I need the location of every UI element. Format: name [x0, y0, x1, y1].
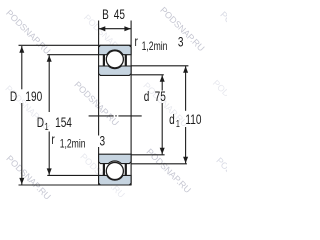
- bearing right face line + B right extension: [130, 21, 132, 186]
- svg-text:r: r: [51, 132, 54, 148]
- svg-text:110: 110: [185, 112, 201, 128]
- svg-text:1: 1: [45, 121, 49, 132]
- svg-text:D: D: [10, 88, 17, 104]
- d top extension line: [131, 74, 164, 76]
- d dimension line upper part: [161, 75, 163, 90]
- d1 dimension bottom arrowhead: [183, 157, 188, 164]
- D1 dimension top arrowhead: [47, 55, 52, 62]
- d1 bottom extension line: [131, 163, 187, 165]
- d1 dimension line lower part: [185, 127, 187, 163]
- center axis line (right dash): [118, 115, 141, 117]
- svg-text:d: d: [144, 89, 150, 105]
- bearing top outer surface line + D top extension line: [19, 44, 132, 46]
- d1 dimension line upper part: [185, 66, 187, 111]
- D1 dimension line upper part: [48, 55, 50, 112]
- bottom section ball: [106, 162, 123, 179]
- svg-text:r: r: [135, 33, 138, 49]
- svg-text:75: 75: [155, 89, 166, 105]
- D dimension line upper part: [21, 46, 23, 89]
- svg-text:d: d: [169, 112, 175, 128]
- bottom section inner ring (cross-section, lower half): [99, 154, 132, 163]
- svg-text:190: 190: [25, 88, 42, 104]
- B dimension right arrowhead: [124, 26, 130, 31]
- bottom section left gap shoulder bar: [103, 164, 105, 176]
- top section inner ring (cross-section, upper half): [99, 66, 132, 75]
- svg-text:D: D: [37, 115, 44, 131]
- D1 dimension line lower part: [48, 132, 50, 175]
- d dimension bottom arrowhead: [160, 148, 165, 155]
- svg-text:154: 154: [55, 115, 72, 131]
- center axis line (center dot): [115, 115, 117, 117]
- bearing left face line lower part: [98, 147, 100, 185]
- svg-text:3: 3: [178, 34, 184, 50]
- d dimension line lower part: [161, 103, 163, 154]
- bearing bottom outer surface line + D bottom extension line: [19, 184, 132, 186]
- svg-text:B: B: [102, 7, 109, 23]
- center axis line (left dash): [89, 115, 114, 117]
- d dimension top arrowhead: [160, 75, 165, 82]
- svg-text:1,2min: 1,2min: [142, 41, 168, 53]
- D dimension bottom arrowhead: [19, 178, 24, 185]
- D1 bottom extension line: [47, 174, 98, 176]
- top section right gap shoulder bar: [125, 55, 127, 67]
- bottom section right gap shoulder bar: [125, 164, 127, 176]
- D1 top extension line: [47, 54, 98, 56]
- d bottom extension line: [131, 154, 165, 156]
- D dimension line lower part: [21, 103, 23, 185]
- d1 dimension top arrowhead: [183, 66, 188, 73]
- D1 dimension bottom arrowhead: [47, 168, 52, 175]
- svg-text:1,2min: 1,2min: [60, 139, 86, 151]
- D dimension top arrowhead: [19, 46, 24, 53]
- B dimension line: [99, 28, 132, 30]
- top section ball: [106, 51, 123, 68]
- top section outer ring (cross-section, upper half): [99, 45, 132, 54]
- B dimension left arrowhead: [99, 26, 106, 31]
- svg-text:1: 1: [176, 118, 180, 129]
- svg-text:3: 3: [100, 133, 106, 149]
- d1 top extension line: [131, 65, 188, 67]
- bearing left face line upper part (B left extension, broken at bottom r value): [98, 21, 100, 136]
- top section left gap shoulder bar: [103, 55, 105, 67]
- svg-text:45: 45: [114, 7, 126, 23]
- bottom section outer ring (cross-section, lower half): [99, 175, 132, 185]
